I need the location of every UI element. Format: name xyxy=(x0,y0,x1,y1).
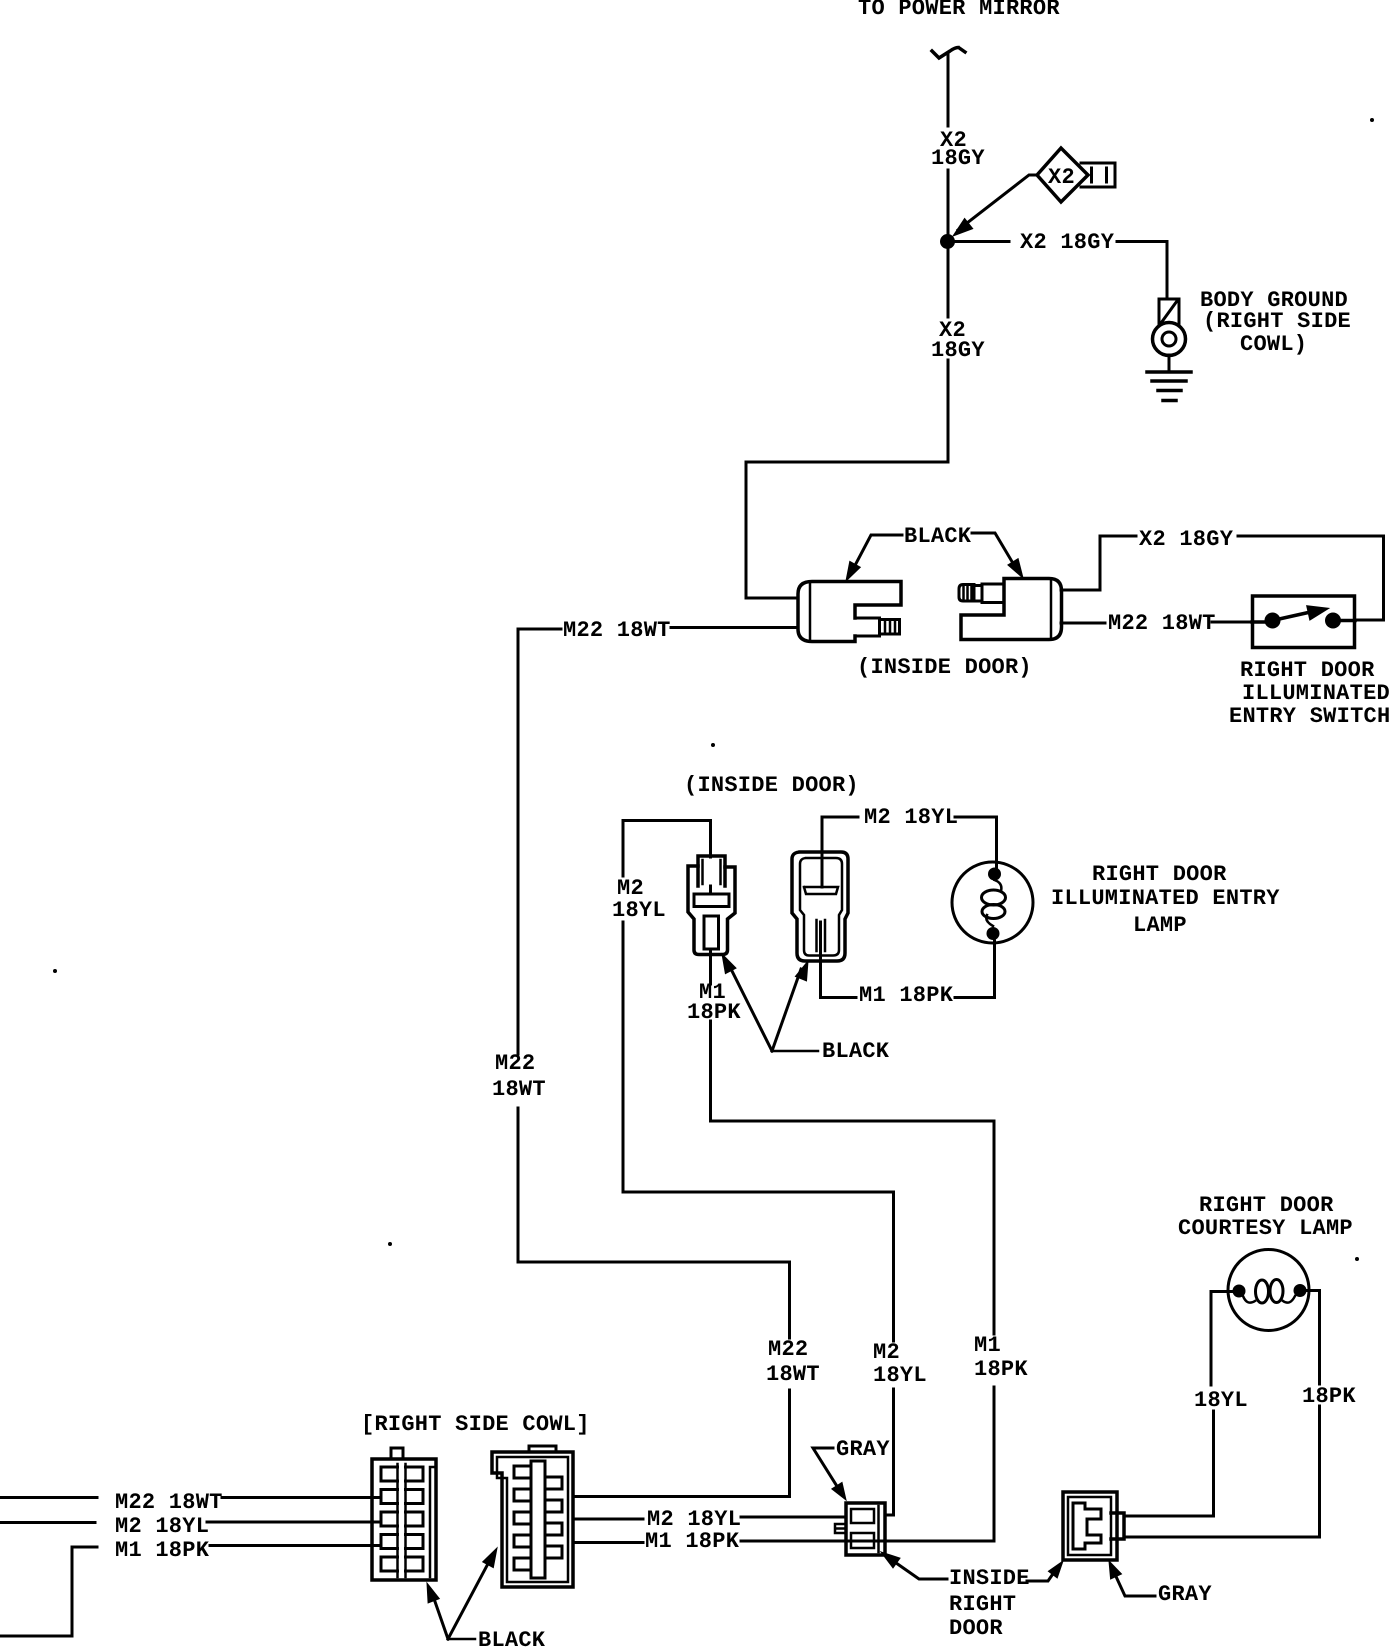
wire M22 18WT into door connector xyxy=(671,626,797,629)
connector lamp socket plug (wedge base) xyxy=(698,856,725,886)
wire M2 18YL into gray connector xyxy=(741,1516,846,1519)
svg-text:RIGHT DOOR: RIGHT DOOR xyxy=(1199,1193,1334,1218)
wire X2 18GY vertical (upper segment) xyxy=(947,53,950,126)
svg-text:18YL: 18YL xyxy=(873,1363,927,1388)
wire M1 18PK socket tail xyxy=(709,886,712,984)
wire M22 18WT left stub xyxy=(518,628,561,631)
connector half (black, inside door) right body xyxy=(961,579,1062,640)
bullet terminal (right half) xyxy=(959,584,1004,603)
wire 18YL from courtesy lamp xyxy=(1211,1292,1232,1386)
wire M2 18YL left vertical (lower) then jog right xyxy=(623,922,894,1341)
svg-text:18WT: 18WT xyxy=(766,1362,820,1387)
svg-text:M2 18YL: M2 18YL xyxy=(864,805,958,830)
svg-text:GRAY: GRAY xyxy=(836,1437,890,1462)
svg-text:GRAY: GRAY xyxy=(1158,1582,1212,1607)
connector half (black, inside door) left body xyxy=(798,582,901,642)
connector gray half (inside right door, left) xyxy=(846,1503,885,1555)
svg-text:18YL: 18YL xyxy=(1194,1388,1248,1413)
leader arrow GRAY to right gray connector xyxy=(1113,1570,1155,1596)
svg-text:18GY: 18GY xyxy=(931,338,985,363)
svg-text:M22 18WT: M22 18WT xyxy=(115,1490,223,1515)
wire M2 18YL from cowl connector to gray connector xyxy=(573,1518,643,1521)
leader arrow INSIDE to gray connector (left) xyxy=(889,1558,947,1579)
socket plug horizontal slot xyxy=(694,894,729,907)
svg-text:18WT: 18WT xyxy=(492,1077,546,1102)
svg-text:M22 18WT: M22 18WT xyxy=(563,618,671,643)
lamp right door illuminated entry lamp bulb xyxy=(952,862,1033,943)
svg-text:[RIGHT SIDE COWL]: [RIGHT SIDE COWL] xyxy=(361,1412,590,1437)
svg-text:ENTRY SWITCH: ENTRY SWITCH xyxy=(1229,704,1390,729)
connector bulb holder (inside door) outer shell xyxy=(792,852,848,961)
wire M22 18WT to switch xyxy=(1061,622,1105,625)
svg-text:RIGHT DOOR: RIGHT DOOR xyxy=(1240,658,1375,683)
wire M2 18YL from harness (left edge) xyxy=(0,1521,95,1524)
leader arrow INSIDE to gray connector (right) xyxy=(1027,1568,1057,1581)
svg-text:M2 18YL: M2 18YL xyxy=(115,1514,209,1539)
connector C2 right side cowl (female half) outline xyxy=(492,1452,573,1587)
connector gray half (inside right door, right) xyxy=(1063,1492,1117,1560)
svg-text:M1 18PK: M1 18PK xyxy=(115,1538,210,1563)
svg-text:M22: M22 xyxy=(495,1051,535,1076)
wire X2 18GY from right half to switch xyxy=(1061,536,1136,590)
speck artifacts xyxy=(711,743,715,747)
leader arrow BLACK to right half xyxy=(972,533,1017,570)
wire M2 18YL stub to label xyxy=(823,816,858,819)
wire M2 18YL down to gray connector xyxy=(885,1389,894,1515)
wire M22 18WT from harness (left edge) xyxy=(0,1496,97,1499)
svg-text:M1 18PK: M1 18PK xyxy=(645,1529,740,1554)
svg-text:M22 18WT: M22 18WT xyxy=(1108,611,1216,636)
svg-text:BLACK: BLACK xyxy=(904,524,972,549)
ground symbol (right side cowl) xyxy=(1147,370,1191,374)
svg-text:LAMP: LAMP xyxy=(1133,913,1187,938)
svg-text:X2 18GY: X2 18GY xyxy=(1020,230,1115,255)
svg-text:(RIGHT SIDE: (RIGHT SIDE xyxy=(1203,309,1351,334)
wire M2 18YL left vertical (upper) xyxy=(622,821,625,877)
switch contact left xyxy=(1265,613,1281,629)
wire M1 18PK to entry lamp xyxy=(955,941,995,998)
body ground eyelet lug xyxy=(1159,299,1179,325)
switch S1 right door illuminated entry switch box xyxy=(1253,596,1355,648)
svg-text:RIGHT: RIGHT xyxy=(949,1592,1016,1617)
svg-text:18PK: 18PK xyxy=(974,1357,1028,1382)
bulb holder terminal tee slot xyxy=(804,887,838,894)
wire break symbol (to power mirror) xyxy=(932,48,965,59)
svg-text:M2: M2 xyxy=(873,1340,900,1365)
wire M22 18WT vertical run (lower) then jog right xyxy=(518,1108,790,1338)
leader arrow GRAY to gray connector xyxy=(813,1448,840,1491)
svg-text:(INSIDE DOOR): (INSIDE DOOR) xyxy=(857,655,1032,680)
wire M1 18PK from harness (bottom left corner) xyxy=(0,1547,97,1636)
pin number box 11 xyxy=(1081,163,1115,187)
wire X2 18GY vertical (to junction) xyxy=(947,170,950,234)
svg-text:(INSIDE DOOR): (INSIDE DOOR) xyxy=(684,773,859,798)
svg-text:BLACK: BLACK xyxy=(478,1628,546,1650)
wire M22 18WT into switch xyxy=(1212,621,1253,624)
lamp right door courtesy lamp bulb xyxy=(1228,1250,1309,1331)
wire M2 18YL into bulb holder xyxy=(821,817,824,887)
svg-text:M1 18PK: M1 18PK xyxy=(859,983,954,1008)
node splice junction X2 xyxy=(940,234,955,249)
wire M1 18PK out of bulb holder xyxy=(821,922,857,998)
leader arrow BLACK to left half xyxy=(851,535,902,573)
svg-text:M22: M22 xyxy=(768,1337,808,1362)
leader arrow BLACK to socket plug xyxy=(729,965,772,1051)
wire M22 18WT down to cowl connector row 1 xyxy=(573,1390,790,1497)
svg-text:M1: M1 xyxy=(974,1333,1001,1358)
bulb holder inner shell xyxy=(800,858,842,956)
svg-text:COWL): COWL) xyxy=(1240,332,1307,357)
leader line BLACK vertex (bottom) xyxy=(448,1638,475,1641)
connector C2 terminal bar and comb xyxy=(531,1461,545,1578)
wire X2 18GY vertical (below junction) xyxy=(947,249,950,317)
switch contact right xyxy=(1325,613,1341,629)
socket plug vertical slot xyxy=(704,916,719,949)
wire 18YL down to gray connector xyxy=(1124,1411,1214,1516)
bullet terminal (left half) xyxy=(855,618,900,636)
svg-text:COURTESY LAMP: COURTESY LAMP xyxy=(1178,1216,1353,1241)
wire X2 18GY to body ground (left stub) xyxy=(955,240,1009,243)
svg-text:X2: X2 xyxy=(1048,165,1075,190)
wire X2 18GY switch loop xyxy=(1238,536,1384,620)
svg-text:ILLUMINATED: ILLUMINATED xyxy=(1242,681,1390,706)
svg-text:INSIDE: INSIDE xyxy=(949,1566,1030,1591)
wire M1 18PK down to gray connector row xyxy=(741,1387,994,1541)
wire X2 18GY to body ground (right segment + corner) xyxy=(1117,242,1167,300)
leader line BLACK vertex xyxy=(772,1050,818,1053)
leader arrow BLACK to connector C2 xyxy=(448,1558,491,1639)
svg-text:BLACK: BLACK xyxy=(822,1039,890,1064)
svg-text:18PK: 18PK xyxy=(1302,1384,1356,1409)
svg-text:TO POWER MIRROR: TO POWER MIRROR xyxy=(858,0,1060,21)
bulb holder lower slot xyxy=(817,920,826,951)
wire M2 18YL to entry lamp xyxy=(955,817,997,867)
connector callout diamond X2 cavity 11 xyxy=(1037,148,1088,202)
wire M1 18PK from cowl connector xyxy=(573,1541,643,1544)
wire M1 18PK vertical run then jog right xyxy=(711,1021,995,1334)
svg-text:18GY: 18GY xyxy=(931,146,985,171)
wire 18PK from courtesy lamp xyxy=(1306,1291,1320,1385)
switch lever arrow xyxy=(1252,611,1355,622)
leader arrow BLACK to connector C1 xyxy=(432,1593,448,1639)
wire M2 18YL top jog to socket connector xyxy=(623,821,711,858)
wire lug to ground xyxy=(1168,355,1171,371)
wire 18PK down to gray connector xyxy=(1124,1406,1320,1537)
svg-text:X2 18GY: X2 18GY xyxy=(1139,527,1234,552)
svg-text:DOOR: DOOR xyxy=(949,1616,1003,1641)
leader arrow BLACK to bulb holder xyxy=(772,969,801,1051)
svg-text:18YL: 18YL xyxy=(612,898,666,923)
svg-text:ILLUMINATED ENTRY: ILLUMINATED ENTRY xyxy=(1051,886,1280,911)
leader arrow from diamond X2 to junction xyxy=(958,175,1037,230)
wire M2 18YL into cowl connector xyxy=(207,1521,381,1524)
wire M1 18PK into cowl connector xyxy=(210,1544,381,1547)
connector C1 right side cowl (male half) outline xyxy=(372,1459,436,1580)
svg-text:RIGHT DOOR: RIGHT DOOR xyxy=(1092,862,1227,887)
connector C1 terminal comb xyxy=(398,1464,406,1577)
wire M22 18WT into cowl connector xyxy=(222,1496,381,1499)
svg-text:18PK: 18PK xyxy=(687,1000,741,1025)
wire M22 18WT vertical run xyxy=(517,629,520,1054)
wire X2 18GY down to door connector xyxy=(746,360,948,598)
